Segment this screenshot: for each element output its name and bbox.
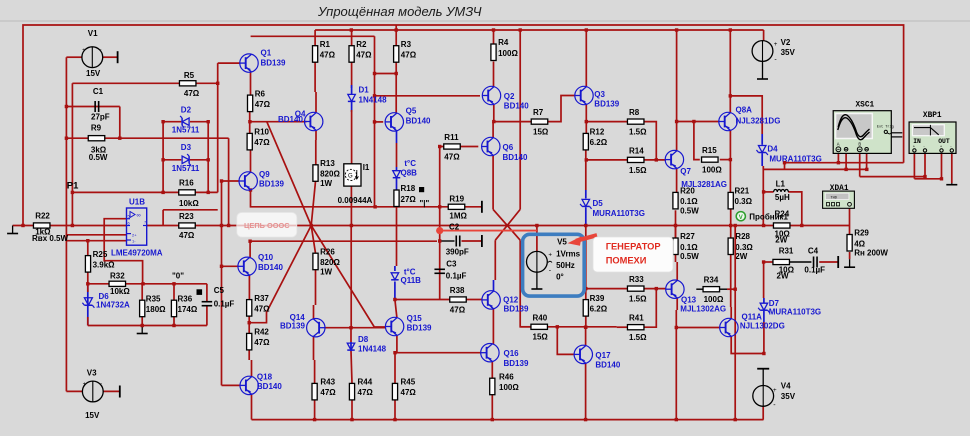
wire rail A (R1-R3-V2 bus) — [315, 29, 763, 31]
svg-text:R44: R44 — [358, 378, 373, 387]
svg-text:2W: 2W — [775, 235, 787, 244]
svg-text:1N4148: 1N4148 — [358, 345, 387, 354]
wire R45 column — [394, 191, 396, 193]
transistor Q17 — [574, 345, 592, 363]
svg-text:D4: D4 — [767, 145, 778, 154]
svg-text:∞: ∞ — [137, 213, 141, 219]
resistor R18 — [394, 190, 399, 207]
wire R41 right jog up to R33 row — [644, 289, 656, 328]
resistor R27 — [673, 238, 678, 255]
svg-text:Q13: Q13 — [681, 295, 697, 304]
wire R5 row — [72, 82, 217, 84]
svg-text:R14: R14 — [629, 146, 644, 155]
ground bode — [951, 183, 953, 185]
svg-text:R6: R6 — [255, 89, 266, 98]
svg-text:+: + — [774, 41, 778, 48]
svg-text:Q10: Q10 — [258, 253, 274, 262]
svg-text:V3: V3 — [87, 368, 97, 377]
svg-text:2W: 2W — [735, 252, 747, 261]
resistor R9 — [88, 136, 105, 141]
wire R46 bottom — [491, 395, 493, 420]
wire Q2 emitter to R7 row — [493, 105, 495, 122]
svg-text:Q12: Q12 — [503, 295, 519, 304]
svg-text:180Ω: 180Ω — [146, 305, 166, 314]
svg-text:R7: R7 — [533, 108, 544, 117]
svg-text:D3: D3 — [181, 143, 192, 152]
svg-text:6.2Ω: 6.2Ω — [590, 304, 608, 313]
resistor R41 — [627, 325, 644, 330]
net marker black square — [197, 289, 203, 295]
voltage source V1 — [82, 47, 103, 68]
wire R43 bottom — [314, 400, 316, 420]
svg-text:35V: 35V — [781, 392, 796, 401]
svg-text:50Hz: 50Hz — [556, 261, 575, 270]
wire V3 right lead to terminal — [103, 390, 119, 392]
svg-text:R10: R10 — [254, 128, 269, 137]
wire bode pin stubs — [913, 153, 915, 179]
wire R2 stub top — [351, 30, 353, 46]
wire Q5 base column long — [374, 36, 376, 207]
svg-text:15V: 15V — [86, 69, 101, 78]
svg-text:MURA110T3G: MURA110T3G — [593, 209, 645, 218]
svg-text:D7: D7 — [769, 299, 780, 308]
wire R37-R42 node — [248, 316, 250, 333]
svg-text:0.3Ω: 0.3Ω — [735, 197, 753, 206]
transistor Q15 — [385, 317, 403, 335]
transistor Q9 — [239, 172, 257, 190]
svg-text:1N4732A: 1N4732A — [96, 301, 130, 310]
transistor Q18 — [240, 376, 258, 394]
wire D4 leads blue — [761, 134, 763, 145]
svg-text:47Ω: 47Ω — [450, 305, 466, 314]
diode D7 — [758, 303, 770, 313]
wire node A drop to input row — [162, 210, 164, 226]
svg-text:R13: R13 — [320, 159, 335, 168]
wire X to Q15 base diag — [311, 226, 386, 328]
svg-text:R33: R33 — [629, 275, 644, 284]
svg-text:47Ω: 47Ω — [356, 51, 372, 60]
svg-text:MURA110T3G: MURA110T3G — [769, 155, 821, 164]
node highlighted noise injection wire — [440, 230, 537, 232]
capacitor C5 — [202, 301, 213, 303]
svg-text:NJL1302DG: NJL1302DG — [740, 322, 785, 331]
svg-text:R8: R8 — [629, 108, 640, 117]
wire P1 vertical — [71, 83, 73, 225]
wire Q10 collector to C2 row — [250, 241, 437, 257]
svg-text:1.5Ω: 1.5Ω — [629, 166, 647, 175]
svg-text:0.5W: 0.5W — [680, 207, 699, 216]
wire D6 column — [87, 284, 89, 326]
transistor Q10 — [238, 257, 256, 275]
wire R7 row — [494, 121, 531, 123]
svg-text:0.1µF: 0.1µF — [804, 265, 825, 274]
svg-text:0°: 0° — [556, 273, 564, 282]
svg-text:Пробник1: Пробник1 — [749, 213, 788, 222]
svg-text:C5: C5 — [214, 286, 225, 295]
wire Q7 emitter to R20 — [676, 168, 678, 192]
svg-text:100Ω: 100Ω — [499, 383, 519, 392]
wire C1-R9 right vertical — [119, 107, 121, 139]
svg-text:R40: R40 — [533, 313, 548, 322]
wire V5 top lead — [536, 226, 538, 252]
svg-text:R32: R32 — [110, 272, 125, 281]
svg-text:BD139: BD139 — [504, 359, 529, 368]
svg-text:2+: 2+ — [132, 233, 137, 238]
svg-text:R23: R23 — [179, 212, 194, 221]
wire R25-R32 row — [88, 283, 143, 285]
wire opamp output row to OOOC line — [147, 225, 850, 227]
wire R36 stub — [173, 284, 175, 300]
svg-text:R37: R37 — [254, 294, 269, 303]
svg-text:R12: R12 — [590, 128, 605, 137]
svg-text:A: A — [837, 141, 840, 146]
svg-text:R26: R26 — [320, 247, 335, 256]
svg-text:C4: C4 — [808, 247, 819, 256]
svg-text:1W: 1W — [320, 179, 332, 188]
svg-text:D5: D5 — [593, 199, 604, 208]
resistor R20 — [673, 192, 678, 209]
svg-text:Q11B: Q11B — [401, 276, 422, 285]
wire Q9 emitter row to R19 — [251, 190, 449, 207]
wire R1 stub top — [314, 30, 316, 46]
resistor R23 — [179, 223, 196, 228]
svg-text:MJL1302AG: MJL1302AG — [680, 305, 726, 314]
wire R9 row long — [66, 137, 228, 139]
wire top rail V+ — [23, 25, 904, 226]
op-amp U1B — [127, 208, 147, 245]
wire 520 column down to R40 row — [520, 240, 531, 327]
resistor R2 — [349, 46, 354, 63]
svg-text:6.2Ω: 6.2Ω — [590, 138, 608, 147]
resistor R15 — [702, 157, 719, 162]
wire D2-D3 right vertical — [207, 122, 209, 193]
svg-text:0.00944A: 0.00944A — [338, 196, 373, 205]
wire U1B pin5 feedback — [104, 219, 142, 284]
wire R13 bottom diag to X — [311, 181, 315, 225]
wire R9 drop column — [228, 138, 230, 225]
svg-text:XBP1: XBP1 — [923, 112, 942, 120]
svg-text:BD140: BD140 — [278, 115, 303, 124]
svg-text:Q5: Q5 — [406, 107, 417, 116]
svg-text:I1: I1 — [363, 163, 370, 172]
svg-text:Q3: Q3 — [594, 90, 605, 99]
svg-text:47Ω: 47Ω — [184, 89, 200, 98]
wire R26 bottom to Q14 collector — [315, 265, 317, 305]
wire V2 to ground — [762, 61, 764, 71]
transistor Q2 — [482, 86, 500, 104]
resistor R8 — [627, 119, 644, 124]
wire scope feed row 2 — [763, 168, 867, 170]
svg-text:R21: R21 — [735, 187, 750, 196]
svg-text:Ext Trig: Ext Trig — [877, 124, 894, 129]
svg-text:47Ω: 47Ω — [254, 304, 270, 313]
wire R12 bottom to D5 — [585, 150, 587, 190]
wire Q5 emitter to Q8B — [396, 131, 398, 143]
svg-text:47Ω: 47Ω — [255, 100, 271, 109]
svg-text:"0": "0" — [172, 272, 184, 281]
svg-text:U1B: U1B — [129, 198, 145, 207]
wire R21 to R28 — [730, 209, 732, 238]
wire Q9 base lead — [222, 180, 240, 182]
svg-text:P1: P1 — [67, 180, 79, 191]
svg-text:BD140: BD140 — [257, 382, 282, 391]
wire D8 hang column — [350, 328, 352, 342]
wire title underline — [0, 20, 970, 22]
svg-text:BD140: BD140 — [258, 263, 283, 272]
svg-text:0.3Ω: 0.3Ω — [735, 243, 753, 252]
transistor Q5 — [385, 113, 403, 131]
svg-text:BD140: BD140 — [595, 361, 620, 370]
wire R41 left gap — [617, 326, 628, 328]
wire V1 left lead — [66, 56, 82, 58]
wire R3 jog to Q5 collector — [375, 73, 397, 75]
svg-text:+: + — [83, 381, 87, 388]
resistor R6 — [248, 95, 253, 112]
wire base chain Q9-Q10-Q18 — [221, 181, 223, 385]
svg-text:174Ω: 174Ω — [178, 305, 198, 314]
svg-text:1N4148: 1N4148 — [359, 95, 388, 104]
svg-text:1.5Ω: 1.5Ω — [629, 333, 647, 342]
wire V4 bottom to rail — [762, 406, 764, 419]
wire R4 stub — [493, 30, 495, 44]
svg-text:"|": "|" — [420, 199, 430, 208]
wire C4 terminal — [837, 256, 839, 268]
wire C1 row — [66, 106, 119, 108]
resistor R43 — [312, 383, 317, 400]
transistor Q1 — [240, 54, 258, 72]
svg-text:10kΩ: 10kΩ — [179, 199, 199, 208]
wire R34 leads — [696, 288, 703, 290]
wire R20 col dot output row — [675, 226, 677, 239]
transistor Q11A — [720, 318, 738, 336]
wire R39 stubs — [585, 289, 587, 300]
wire Q5 base lead — [375, 121, 384, 123]
junction dots — [71, 191, 74, 194]
svg-text:0.1Ω: 0.1Ω — [680, 197, 698, 206]
transistor Q16 — [481, 344, 499, 362]
wire R16 row (P1 feedback) — [72, 191, 217, 193]
svg-text:NJL3281DG: NJL3281DG — [736, 117, 781, 126]
wire D4 branch — [730, 96, 762, 134]
label pipe marker — [419, 187, 424, 192]
wire right X swap — [493, 209, 520, 240]
svg-text:Q16: Q16 — [504, 349, 520, 358]
resistor R45 — [392, 383, 397, 400]
wire R18 bottom to R19 row — [396, 207, 398, 212]
wire D2 row — [163, 121, 181, 123]
highlight box around V5 — [523, 234, 585, 296]
wire R38 row — [395, 299, 450, 301]
thermal diode Q8B — [393, 171, 401, 178]
svg-text:R19: R19 — [449, 195, 464, 204]
svg-text:Q18: Q18 — [257, 372, 273, 381]
svg-text:2W: 2W — [777, 272, 789, 281]
svg-text:35V: 35V — [781, 48, 796, 57]
svg-text:1Vrms: 1Vrms — [556, 250, 581, 259]
svg-text:BD140: BD140 — [504, 102, 529, 111]
transistor Q14 mirrored — [307, 319, 325, 337]
svg-text:Rвх 0.5W: Rвх 0.5W — [32, 234, 68, 243]
wire Q8A emitter to R21 — [729, 130, 731, 192]
capacitor C1 — [94, 101, 96, 112]
wire D4 column to L1 and output row — [762, 166, 764, 226]
wire D3 row — [163, 159, 181, 161]
svg-text:0.1µF: 0.1µF — [214, 300, 235, 309]
svg-text:1N5711: 1N5711 — [172, 125, 200, 134]
svg-text:R29: R29 — [854, 229, 869, 238]
svg-text:R35: R35 — [146, 294, 161, 303]
wire 520 rail from line A — [519, 30, 521, 209]
wire Q1 base column — [217, 63, 219, 192]
current source I1 — [344, 164, 361, 186]
diode D5 — [580, 199, 592, 209]
svg-text:100Ω: 100Ω — [498, 49, 518, 58]
svg-text:R1: R1 — [320, 40, 331, 49]
wire R2 to D1 — [351, 62, 353, 88]
svg-text:47Ω: 47Ω — [444, 153, 460, 162]
resistor R21 — [728, 192, 733, 209]
wire bottom rail — [252, 419, 764, 421]
wire Q11B to Q15 collector — [395, 300, 397, 318]
wire Q2 base row — [375, 95, 481, 97]
svg-text:1N5711: 1N5711 — [172, 164, 200, 173]
wire Q13 emitter down to bottom rail — [676, 298, 678, 310]
svg-text:47Ω: 47Ω — [320, 388, 336, 397]
svg-text:R43: R43 — [320, 378, 335, 387]
wire C2 left lead — [440, 240, 455, 242]
wire R3 stub top — [395, 25, 397, 46]
svg-text:R38: R38 — [450, 286, 465, 295]
svg-text:R42: R42 — [254, 328, 269, 337]
svg-text:10kΩ: 10kΩ — [110, 287, 130, 296]
svg-text:BD139: BD139 — [259, 179, 284, 188]
node big highlight dot — [436, 227, 443, 234]
svg-text:t°C: t°C — [404, 267, 416, 276]
svg-text:Q1: Q1 — [261, 49, 272, 58]
resistor R3 — [394, 46, 399, 63]
wire Q17 base drop — [557, 327, 574, 355]
resistor R10 — [247, 133, 252, 150]
wire R6-R10 column — [250, 72, 252, 95]
svg-text:V: V — [739, 215, 743, 221]
resistor R38 — [450, 297, 467, 302]
svg-text:+: + — [773, 387, 777, 394]
svg-text:47Ω: 47Ω — [401, 51, 417, 60]
transistor Q6 — [482, 137, 500, 155]
svg-text:Q6: Q6 — [503, 143, 514, 152]
diode D1 — [348, 94, 356, 101]
wire bode gnd row — [914, 178, 941, 180]
svg-text:D2: D2 — [181, 106, 192, 115]
wire scope feed row 1 — [785, 162, 904, 164]
wire Q16 collector from Q12 emitter — [492, 309, 494, 344]
diode D4 — [756, 146, 768, 156]
svg-text:1W: 1W — [320, 267, 332, 276]
wire R15 right to Q8A emitter column — [720, 159, 731, 161]
resistor R1 — [313, 46, 318, 63]
thermal diode Q11B — [391, 273, 399, 280]
svg-text:1.5Ω: 1.5Ω — [629, 128, 647, 137]
svg-text:Rн 200W: Rн 200W — [854, 249, 888, 258]
wire Q10 base lead — [222, 265, 239, 267]
svg-text:R18: R18 — [401, 184, 416, 193]
svg-text:R16: R16 — [179, 179, 194, 188]
svg-text:ЦЕПЬ ОООС: ЦЕПЬ ОООС — [244, 221, 290, 230]
svg-text:BD139: BD139 — [504, 305, 529, 314]
svg-text:27Ω: 27Ω — [401, 195, 417, 204]
diode D2 — [180, 116, 189, 128]
svg-text:BD140: BD140 — [406, 117, 431, 126]
svg-text:G: G — [348, 174, 353, 180]
svg-text:ГЕНЕРАТОР: ГЕНЕРАТОР — [606, 241, 661, 251]
wire V2 drop from line A — [763, 30, 765, 41]
svg-text:Q8A: Q8A — [736, 106, 753, 115]
resistor R31 — [773, 259, 790, 264]
label OOOC net box — [237, 213, 297, 238]
svg-text:V5: V5 — [557, 238, 567, 247]
wire I1 column continues to base row — [350, 226, 352, 328]
resistor R13 — [313, 165, 318, 182]
wire R28 to Q11A collector — [730, 255, 732, 308]
svg-text:820Ω: 820Ω — [320, 258, 340, 267]
wire Q8B to R18 — [396, 178, 398, 190]
svg-text:47Ω: 47Ω — [254, 138, 270, 147]
svg-text:R28: R28 — [735, 232, 750, 241]
transistor Q4 (mirrored labels left) — [305, 112, 323, 130]
wire R45 hang from Q16 base row — [394, 353, 396, 384]
wire Q11A emitter jog to D7 column — [731, 336, 764, 353]
wire Q11B diode leads — [394, 266, 396, 271]
annotation label generator pomekhi — [593, 237, 673, 272]
svg-text:BD139: BD139 — [261, 58, 286, 67]
wire zero net bottom rail — [88, 325, 207, 327]
wire C2 right lead — [462, 240, 482, 242]
resistor R46 — [490, 378, 495, 395]
resistor R22 — [33, 223, 50, 228]
wire R31 C4 row — [764, 261, 774, 263]
svg-text:R22: R22 — [35, 212, 50, 221]
svg-text:R46: R46 — [499, 372, 514, 381]
voltage source V5 noise — [527, 251, 548, 272]
svg-text:BD140: BD140 — [503, 153, 528, 162]
svg-text:C3: C3 — [446, 259, 457, 268]
svg-text:R15: R15 — [702, 146, 717, 155]
resistor R35 — [140, 300, 145, 317]
ground zero net — [141, 326, 143, 334]
wire Q8A collector from line A — [729, 30, 731, 113]
svg-text:D8: D8 — [358, 335, 369, 344]
capacitor C3 — [434, 268, 445, 270]
svg-text:1.5Ω: 1.5Ω — [629, 295, 647, 304]
svg-text:t°C: t°C — [404, 159, 416, 168]
resistor R36 — [171, 300, 176, 317]
transistor Q7 — [665, 150, 683, 168]
wire Q16 emitter to R46 — [491, 362, 493, 379]
svg-text:15Ω: 15Ω — [533, 128, 549, 137]
probe V green — [736, 212, 745, 221]
wire X to R37-R42 node diag — [249, 226, 311, 323]
resistor R26 — [313, 253, 318, 270]
wire R42 to Q18 collector — [248, 350, 250, 360]
wire R44 bottom — [351, 399, 353, 420]
wire rail B Q1 to Q5-base column — [251, 35, 375, 37]
svg-text:Q11A: Q11A — [742, 313, 763, 322]
resistor R5 — [179, 81, 196, 86]
wire D1 to I1 — [351, 102, 353, 112]
svg-text:47Ω: 47Ω — [401, 388, 417, 397]
wire center column R11-C2-C3 — [439, 147, 441, 300]
svg-text:B: B — [858, 141, 861, 146]
